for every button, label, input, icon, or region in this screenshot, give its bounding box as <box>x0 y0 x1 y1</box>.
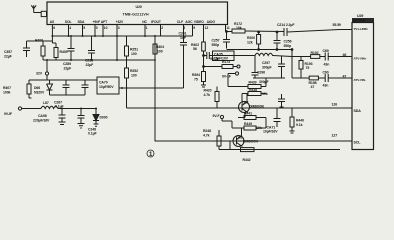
wire y55.5 to inductor Lb <box>252 55 255 57</box>
capacitor C261 on pin 8 wire <box>180 43 187 46</box>
value label R172 <box>179 22 347 89</box>
svg-text:SCL: SCL <box>354 141 362 145</box>
svg-text:10k: 10k <box>256 126 262 130</box>
value label C357 <box>3 39 114 136</box>
resistor R404 <box>153 44 157 54</box>
junction dots on bus <box>46 35 156 110</box>
svg-text:C60: C60 <box>323 71 329 75</box>
pin 1 stub wire <box>144 25 146 37</box>
svg-text:AGC: AGC <box>185 20 193 24</box>
svg-text:100: 100 <box>157 50 163 54</box>
resistor R440 <box>290 108 295 133</box>
svg-text:R251: R251 <box>130 48 138 52</box>
pin 4 stub wire <box>68 25 70 37</box>
pin 8 stub wire <box>183 25 185 89</box>
series capacitor CA35 <box>204 52 213 59</box>
svg-text:47: 47 <box>343 74 347 78</box>
svg-text:12: 12 <box>205 26 209 30</box>
capacitor C267/C248 <box>78 109 85 129</box>
wire y49.5 <box>227 49 293 51</box>
svg-text:4.7k: 4.7k <box>204 93 211 97</box>
svg-text:R440: R440 <box>296 119 304 123</box>
inductor L-a <box>215 55 252 57</box>
resistor R420 <box>215 87 219 109</box>
svg-text:550p: 550p <box>284 44 292 48</box>
capacitor C-mid1 <box>63 80 70 95</box>
svg-text:C296: C296 <box>257 71 265 75</box>
svg-text:11: 11 <box>226 26 230 30</box>
inductor L87 <box>41 106 58 108</box>
svg-text:Q62: Q62 <box>236 136 242 140</box>
wire y66.5 <box>204 66 223 68</box>
capacitor C214 series <box>284 28 340 36</box>
svg-text:CLF: CLF <box>177 20 183 24</box>
sheet number circled 1 <box>147 150 154 157</box>
svg-text:10k: 10k <box>262 92 268 96</box>
capacitor C60 series <box>325 74 352 82</box>
svg-text:L87: L87 <box>43 101 49 105</box>
capacitor C257 <box>223 32 230 49</box>
svg-text:AFT: AFT <box>101 20 108 24</box>
svg-text:300µF: 300µF <box>259 80 269 84</box>
svg-text:+9#F: +9#F <box>93 20 100 24</box>
pin 11 stub wire <box>225 25 227 32</box>
U29 part number bar <box>352 18 374 22</box>
pin 6 stub wire <box>51 25 53 37</box>
svg-text:SDA: SDA <box>78 20 86 24</box>
vertical wire x203.5 <box>203 56 205 67</box>
svg-text:R439: R439 <box>249 81 257 85</box>
capacitor C357 (electrolytic) <box>23 48 30 57</box>
U29 pin labels <box>332 27 369 145</box>
svg-text:R200: R200 <box>247 36 255 40</box>
vertical wire x292 <box>291 50 293 79</box>
resistor R407 <box>27 80 47 98</box>
svg-text:5: 5 <box>83 26 85 30</box>
pin 3 stub wire <box>116 25 118 37</box>
9V-1F terminal <box>235 72 238 75</box>
svg-text:N320V: N320V <box>34 91 45 95</box>
resistor R405 <box>52 43 58 60</box>
wire down to lower rail <box>47 79 97 81</box>
svg-text:1: 1 <box>146 26 148 30</box>
svg-text:R420: R420 <box>204 89 212 93</box>
svg-text:300µF: 300µF <box>262 66 272 70</box>
svg-text:220µF/16V: 220µF/16V <box>33 119 50 123</box>
inductor L-b <box>255 53 273 55</box>
capacitor CA98 electrolytic <box>59 109 66 125</box>
capacitor C-mid2 <box>82 80 89 95</box>
zener diode D66 <box>47 80 53 95</box>
svg-text:C257: C257 <box>212 39 220 43</box>
svg-text:22µF: 22µF <box>4 55 13 59</box>
pin 9 stub wire <box>192 25 194 37</box>
resistor R192 <box>292 55 325 59</box>
wire transistor base row <box>219 141 231 150</box>
U20 pin numbers <box>53 26 230 30</box>
svg-text:R394: R394 <box>192 73 200 77</box>
svg-text:43n: 43n <box>323 84 329 88</box>
svg-text:R406: R406 <box>35 39 43 43</box>
capacitor CA71 electrolytic <box>274 108 281 127</box>
pin 2 stub wire <box>160 25 162 37</box>
resistor R448 <box>217 130 221 150</box>
svg-text:C69: C69 <box>323 49 329 53</box>
svg-text:TMB-G2211VH: TMB-G2211VH <box>123 12 149 16</box>
svg-text:10: 10 <box>104 26 108 30</box>
svg-text:C233: C233 <box>85 59 93 63</box>
resistor R438 <box>242 92 266 96</box>
value label R439 <box>203 61 304 162</box>
svg-text:550p: 550p <box>212 43 220 47</box>
svg-text:DM8600K: DM8600K <box>249 105 265 109</box>
wire 9V rail <box>22 88 121 109</box>
svg-text:9.1k: 9.1k <box>296 123 303 127</box>
svg-text:9V-2F: 9V-2F <box>210 57 220 61</box>
svg-text:C357: C357 <box>4 50 12 54</box>
svg-text:22µF: 22µF <box>64 67 73 71</box>
svg-text:100k: 100k <box>3 91 11 95</box>
svg-text:R442: R442 <box>243 158 251 162</box>
svg-text:4.7k: 4.7k <box>203 134 210 138</box>
svg-text:D000: D000 <box>100 116 108 120</box>
svg-text:75: 75 <box>194 78 198 82</box>
svg-text:R404: R404 <box>156 45 164 49</box>
wire into U29 pin 55,59 <box>340 29 352 31</box>
svg-text:1nF: 1nF <box>180 36 187 40</box>
long vertical wire to SCL row <box>155 36 352 141</box>
svg-text:SOL: SOL <box>65 20 72 24</box>
U20 pin name labels <box>50 20 216 24</box>
svg-text:75: 75 <box>306 66 310 70</box>
svg-text:R449: R449 <box>244 122 252 126</box>
emitter rail y149.5 <box>230 149 340 151</box>
antenna input connector box <box>41 11 46 16</box>
svg-text:R248: R248 <box>203 129 211 133</box>
bus wire below U20 <box>52 35 192 37</box>
svg-text:R407: R407 <box>3 86 11 90</box>
svg-text:0: 0 <box>96 26 98 30</box>
ground rail left <box>29 95 85 98</box>
resistor R441 <box>238 116 266 120</box>
svg-text:C297: C297 <box>262 61 270 65</box>
svg-text:Q62: Q62 <box>242 101 248 105</box>
svg-text:12k: 12k <box>247 41 253 45</box>
pin 0 stub wire <box>94 25 96 37</box>
svg-text:100: 100 <box>131 52 137 56</box>
junction pin11 <box>226 31 228 33</box>
svg-text:6: 6 <box>53 26 55 30</box>
svg-text:2: 2 <box>161 26 163 30</box>
resistor R252 <box>125 68 129 108</box>
svg-text:10µF/16V: 10µF/16V <box>263 130 278 134</box>
resistor R439 <box>228 78 266 89</box>
antenna <box>31 5 41 12</box>
diode D000 <box>93 109 99 127</box>
capacitor C256 <box>274 32 281 50</box>
wire y78 <box>253 77 285 79</box>
capacitor C297 <box>278 56 285 79</box>
resistor R406 <box>41 41 45 60</box>
wire y121 to CA71 <box>265 118 267 129</box>
svg-text:9V-1F: 9V-1F <box>222 75 232 79</box>
resistor R173 <box>222 65 240 69</box>
svg-text:NC: NC <box>142 20 147 24</box>
svg-text:ATV-VIN+: ATV-VIN+ <box>354 56 367 60</box>
wire Q62 collector up <box>246 94 248 103</box>
svg-text:R252: R252 <box>130 69 138 73</box>
svg-text:R173: R173 <box>222 60 230 64</box>
svg-text:AIOG: AIOG <box>207 20 216 24</box>
resistor R442 <box>241 148 255 152</box>
op-amp U20 TMB-G2211VH IC body <box>47 2 228 25</box>
svg-text:56: 56 <box>193 47 197 51</box>
svg-text:4: 4 <box>69 26 71 30</box>
svg-text:CA98: CA98 <box>38 114 47 118</box>
wire row ATV-VIN- y78 <box>292 77 309 79</box>
svg-text:9V-F: 9V-F <box>213 114 221 118</box>
svg-text:R192: R192 <box>311 51 319 55</box>
IC U29 body <box>352 23 374 150</box>
horizontal wire y88 <box>121 87 184 89</box>
svg-text:CA70: CA70 <box>99 81 108 85</box>
svg-text:M37274M8L: M37274M8L <box>353 18 367 22</box>
svg-text:C261: C261 <box>179 32 187 36</box>
svg-text:R441: R441 <box>244 112 252 116</box>
svg-text:SDA: SDA <box>354 109 362 113</box>
svg-text:10k: 10k <box>236 26 242 30</box>
CA35 value box <box>213 51 235 61</box>
pin 10 stub wire <box>102 25 104 37</box>
resistor R251 <box>125 36 129 68</box>
svg-text:VIDEO: VIDEO <box>194 20 205 24</box>
svg-text:0.1µF: 0.1µF <box>55 105 64 109</box>
svg-text:DM8600K: DM8600K <box>243 140 259 144</box>
capacitor C233 <box>88 36 95 60</box>
svg-text:47: 47 <box>311 85 315 89</box>
wire y55.5 <box>213 55 216 57</box>
capacitor C69 series <box>325 53 352 61</box>
svg-text:D66: D66 <box>34 86 40 90</box>
9V-F terminal <box>220 115 223 118</box>
junction dots video line <box>258 31 260 33</box>
wire from bus to left branch <box>27 36 53 48</box>
svg-text:55.59: 55.59 <box>333 23 341 27</box>
SDA row wire to U29 <box>127 107 353 109</box>
svg-text:43n: 43n <box>324 62 330 66</box>
capacitor C289 <box>68 36 75 60</box>
node wire y60 <box>43 59 155 61</box>
svg-text:U20: U20 <box>136 5 142 9</box>
svg-text:9V-IF: 9V-IF <box>4 112 13 116</box>
svg-text:C289: C289 <box>63 62 71 66</box>
svg-text:10µF/50V: 10µF/50V <box>99 85 114 89</box>
Q62b collector link <box>241 128 243 136</box>
capacitor C298 <box>278 94 285 107</box>
svg-text:R438: R438 <box>249 88 257 92</box>
value label R251 <box>130 45 200 82</box>
svg-text:IFOUT: IFOUT <box>151 20 162 24</box>
resistor R200 <box>257 32 261 50</box>
pin 12 stub wire <box>203 25 205 43</box>
svg-text:46: 46 <box>343 53 347 57</box>
resistor R172 <box>232 29 245 33</box>
resistor R402 <box>202 42 206 56</box>
svg-text:TV1-L/RIN: TV1-L/RIN <box>354 27 369 31</box>
CA70 module box <box>97 77 119 94</box>
transistor Q62 <box>239 102 250 113</box>
resistor R394 <box>201 60 206 87</box>
svg-text:+32V: +32V <box>116 20 124 24</box>
capacitor C296 electrolytic <box>252 56 259 79</box>
svg-text:9: 9 <box>193 26 195 30</box>
svg-text:C214 2.2µF: C214 2.2µF <box>277 23 295 27</box>
svg-text:126: 126 <box>332 103 338 107</box>
+32V terminal <box>46 60 48 80</box>
svg-text:127: 127 <box>332 134 338 138</box>
pin 3 wire down to 32V rail <box>116 36 118 60</box>
resistor R198 <box>309 76 325 80</box>
svg-text:22µF: 22µF <box>86 63 95 67</box>
svg-text:0.1µF: 0.1µF <box>88 132 97 136</box>
wire y55.5 extension to R193 <box>273 56 292 57</box>
svg-text:100: 100 <box>131 74 137 78</box>
wire R172 to C214 <box>245 30 284 33</box>
svg-text:C256: C256 <box>284 40 292 44</box>
svg-text:32V: 32V <box>36 72 43 76</box>
resistor R449 <box>238 126 266 130</box>
pin 5 stub wire <box>82 25 84 37</box>
Q62a base/emitter links <box>242 94 245 118</box>
svg-text:R405: R405 <box>60 50 68 54</box>
9V-IF terminal <box>18 107 21 110</box>
transistor Q63 <box>233 136 244 147</box>
svg-text:ATV-VIN-: ATV-VIN- <box>354 78 366 82</box>
resistor R193 <box>299 57 303 79</box>
pin 11 wire to video chain <box>226 31 233 33</box>
svg-text:3: 3 <box>118 26 120 30</box>
